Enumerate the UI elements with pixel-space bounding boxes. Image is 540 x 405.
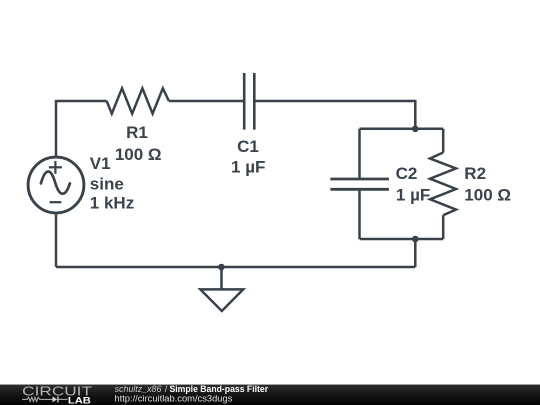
wire R2 top lead	[442, 129, 445, 153]
wire R1 to C1	[169, 100, 244, 103]
svg-text:R1: R1	[126, 123, 148, 142]
node junction dot bottom	[412, 236, 419, 243]
logo schematic line with resistor and diode	[22, 397, 67, 401]
ground stub wire	[220, 267, 223, 289]
wire V1 bottom lead	[55, 213, 58, 267]
capacitor C1	[244, 73, 254, 130]
svg-text:V1: V1	[90, 154, 111, 173]
svg-text:Simple Band-pass Filter: Simple Band-pass Filter	[170, 384, 269, 394]
wire bottom main	[56, 266, 415, 269]
svg-text:100 Ω: 100 Ω	[115, 145, 162, 164]
wire R2 bottom lead	[442, 215, 445, 239]
svg-text:LAB: LAB	[68, 395, 91, 405]
resistor R2	[430, 153, 456, 216]
wire C2 bottom lead	[358, 189, 361, 239]
svg-text:http://circuitlab.com/cs3dugs: http://circuitlab.com/cs3dugs	[114, 394, 233, 404]
wire C2 top lead	[358, 129, 361, 179]
wire C1 to top-right corner down to node	[254, 101, 415, 129]
svg-text:C1: C1	[237, 137, 259, 156]
wire bottom rail of parallel network	[360, 238, 444, 241]
voltage source V1	[28, 157, 84, 213]
svg-text:schultz_x86: schultz_x86	[115, 384, 162, 394]
capacitor C2	[330, 179, 389, 189]
wire node to bottom wire	[414, 239, 417, 267]
resistor R1	[107, 88, 169, 113]
svg-text:sine: sine	[90, 175, 124, 194]
node junction dot ground	[218, 264, 225, 271]
footer bar	[0, 385, 540, 405]
svg-text:R2: R2	[464, 164, 486, 183]
svg-text:C2: C2	[396, 164, 418, 183]
svg-text:1 µF: 1 µF	[231, 157, 265, 176]
node junction dot top	[412, 126, 419, 133]
wire top-left from V1 to R1	[56, 101, 107, 157]
ground	[200, 289, 243, 311]
wire top rail of parallel network	[360, 128, 444, 131]
svg-text:100 Ω: 100 Ω	[464, 185, 511, 204]
svg-text:1 µF: 1 µF	[396, 185, 430, 204]
svg-text:1 kHz: 1 kHz	[90, 194, 134, 213]
